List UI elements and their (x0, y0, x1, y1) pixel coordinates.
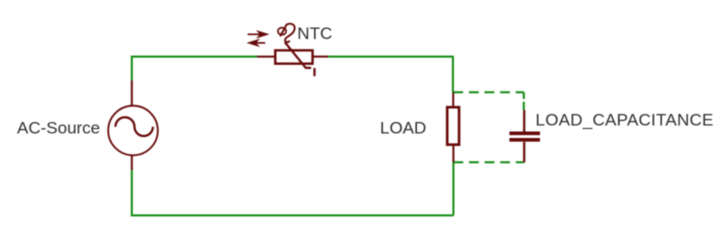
NTC arrow left (248, 40, 265, 47)
theta symbol (278, 24, 295, 42)
circle body (108, 106, 158, 156)
thermistor vertical tick (313, 68, 315, 76)
lead left (257, 56, 275, 58)
lead bottom (452, 145, 454, 163)
lead bottom (131, 155, 133, 170)
plate top (509, 132, 540, 136)
lead bottom (523, 142, 525, 163)
lead top (523, 110, 525, 132)
resistor LOAD (447, 92, 459, 162)
sine wave (115, 117, 152, 136)
lead top (452, 92, 454, 107)
wire top-right (green) (328, 57, 453, 93)
svg-text:LOAD_CAPACITANCE: LOAD_CAPACITANCE (536, 110, 714, 129)
AC source U1 (108, 81, 158, 171)
thermistor diagonal (285, 42, 311, 68)
body rect (447, 107, 459, 144)
dashed wire top vertical (523, 92, 525, 110)
wire left-bottom (green) (132, 170, 454, 215)
svg-text:AC-Source: AC-Source (17, 119, 100, 138)
plate bottom (509, 138, 540, 142)
lead top (131, 81, 133, 106)
body rect (275, 50, 312, 63)
wire right-bottom (green) (452, 162, 454, 215)
NTC arrow right (248, 31, 269, 38)
dashed wire top (to capacitor) (453, 91, 524, 93)
wire top-left (green) (132, 57, 257, 81)
dashed wire bottom (to capacitor) (453, 161, 524, 163)
NTC thermistor R1 (257, 42, 328, 76)
svg-text:LOAD: LOAD (380, 118, 426, 137)
svg-text:NTC: NTC (297, 24, 332, 43)
lead right (313, 56, 329, 58)
capacitor LOAD_CAPACITANCE (509, 110, 540, 162)
